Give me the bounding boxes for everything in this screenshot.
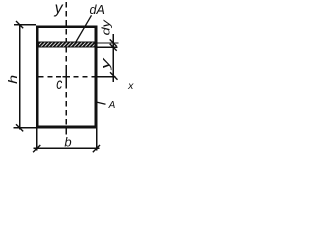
svg-text:c: c <box>56 74 62 92</box>
h dimension extension line top <box>14 24 36 26</box>
dy slash bottom / y slash top <box>110 44 117 51</box>
y slash bottom (at x-axis) <box>110 72 118 80</box>
right dimension line (dy and y) <box>112 34 114 82</box>
b dimension extension line left <box>36 129 38 151</box>
y-axis solid segment below rectangle <box>65 127 67 135</box>
b dimension slash right <box>93 145 100 152</box>
x-axis (horizontal dashed centerline) <box>39 76 98 78</box>
y-axis solid segment at centroid cross <box>65 69 67 83</box>
hatched strip dA <box>39 42 95 47</box>
strip bottom extension line (right) <box>97 46 117 48</box>
leader line from A to right edge <box>97 102 105 104</box>
x-axis solid segment at centroid cross <box>63 76 71 78</box>
svg-text:dA: dA <box>90 3 105 17</box>
h dimension slash bottom <box>16 124 23 131</box>
h dimension line <box>19 25 21 130</box>
svg-text:dy: dy <box>99 19 112 36</box>
leader line from dA to strip <box>75 15 91 43</box>
b dimension slash left <box>33 145 40 152</box>
b dimension extension line right <box>96 129 98 151</box>
rectangle section outline <box>37 27 96 127</box>
h dimension extension line bottom <box>14 127 37 129</box>
h dimension slash top <box>16 21 23 28</box>
dy slash top <box>110 39 117 46</box>
svg-text:y: y <box>99 57 112 71</box>
y-axis (vertical dashed centerline) <box>65 2 67 127</box>
svg-text:y: y <box>54 0 64 17</box>
svg-text:x: x <box>127 80 134 92</box>
x-axis solid extension beyond right edge <box>95 76 116 78</box>
svg-text:A: A <box>108 100 116 111</box>
strip top extension line (right) <box>97 42 118 44</box>
b dimension line <box>34 147 100 149</box>
svg-text:b: b <box>64 135 71 150</box>
svg-text:h: h <box>7 75 20 84</box>
